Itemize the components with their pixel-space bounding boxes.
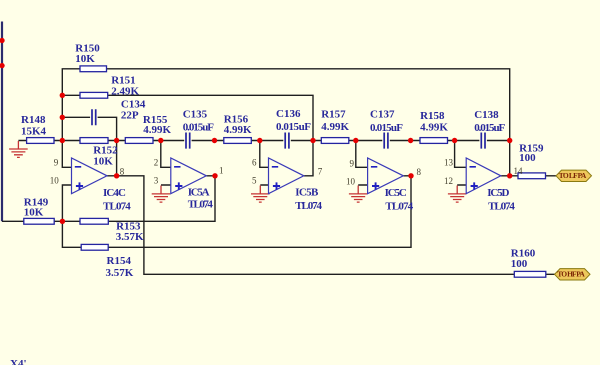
- svg-text:4.99K: 4.99K: [224, 124, 252, 136]
- svg-text:TO LF PA: TO LF PA: [559, 171, 587, 180]
- svg-text:100: 100: [519, 152, 536, 164]
- svg-text:TL074: TL074: [295, 200, 322, 212]
- svg-text:IC5B: IC5B: [295, 186, 319, 198]
- svg-text:10K: 10K: [75, 53, 95, 65]
- svg-text:6: 6: [252, 158, 257, 168]
- svg-text:C136: C136: [276, 108, 301, 120]
- svg-text:C135: C135: [183, 108, 208, 120]
- svg-text:IC5C: IC5C: [385, 187, 407, 199]
- svg-text:2.49K: 2.49K: [111, 86, 139, 98]
- svg-text:9: 9: [54, 158, 59, 168]
- svg-text:3.57K: 3.57K: [106, 267, 134, 279]
- svg-text:5: 5: [252, 176, 257, 186]
- svg-text:0.015uF: 0.015uF: [370, 122, 403, 134]
- svg-text:14: 14: [514, 166, 524, 176]
- svg-text:10: 10: [346, 177, 356, 187]
- svg-text:TL074: TL074: [385, 201, 413, 213]
- svg-text:10K: 10K: [24, 207, 44, 219]
- svg-text:1: 1: [219, 166, 224, 176]
- svg-text:R158: R158: [420, 110, 445, 122]
- svg-text:0.015uF: 0.015uF: [183, 122, 215, 134]
- svg-text:2: 2: [154, 158, 159, 168]
- svg-text:IC5A: IC5A: [188, 186, 210, 198]
- svg-text:TL074: TL074: [103, 201, 131, 213]
- svg-text:TL074: TL074: [188, 199, 214, 211]
- svg-text:4.99K: 4.99K: [321, 121, 349, 133]
- svg-text:C137: C137: [370, 109, 395, 121]
- svg-text:15K4: 15K4: [21, 126, 47, 138]
- svg-text:7: 7: [318, 167, 323, 177]
- svg-text:4.99K: 4.99K: [143, 124, 171, 136]
- svg-text:IC5D: IC5D: [487, 187, 509, 199]
- svg-text:0.015uF: 0.015uF: [474, 122, 505, 134]
- svg-text:3.57K: 3.57K: [116, 231, 144, 243]
- svg-text:R154: R154: [107, 255, 132, 267]
- svg-text:12: 12: [444, 176, 453, 186]
- svg-text:IC4C: IC4C: [103, 187, 126, 199]
- svg-text:8: 8: [120, 167, 125, 177]
- svg-text:8: 8: [417, 167, 422, 177]
- svg-text:13: 13: [444, 158, 454, 168]
- svg-text:9: 9: [350, 159, 355, 169]
- svg-text:10K: 10K: [93, 155, 113, 167]
- svg-text:TL074: TL074: [488, 201, 515, 213]
- svg-text:R157: R157: [321, 109, 346, 121]
- svg-text:R151: R151: [111, 74, 135, 86]
- svg-text:10: 10: [50, 176, 60, 186]
- svg-text:X4': X4': [10, 358, 27, 365]
- svg-text:100: 100: [511, 258, 528, 270]
- svg-text:3: 3: [154, 176, 159, 186]
- svg-text:R148: R148: [21, 114, 46, 126]
- svg-text:C138: C138: [474, 109, 499, 121]
- svg-text:0.015uF: 0.015uF: [276, 121, 311, 133]
- svg-text:22P: 22P: [121, 110, 139, 122]
- svg-text:TO HF PA: TO HF PA: [557, 270, 585, 279]
- svg-text:4.99K: 4.99K: [420, 122, 448, 134]
